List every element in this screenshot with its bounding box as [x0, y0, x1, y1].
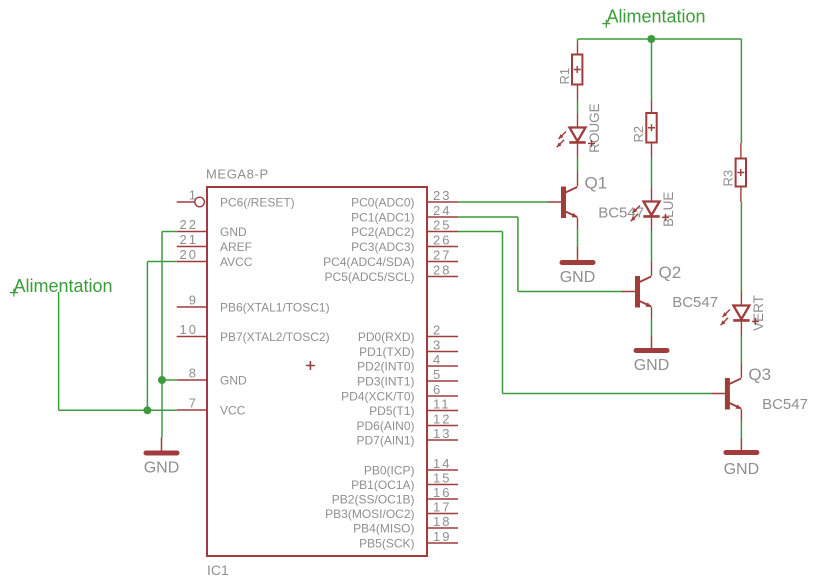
LED VERT — [733, 306, 749, 321]
IC1 pin 21 AREF (left) — [177, 232, 252, 254]
pin wire LED VERT cathode — [740, 320, 742, 335]
svg-text:BLUE: BLUE — [661, 192, 676, 227]
supply label Alimentation (top) — [607, 7, 706, 27]
IC1 pin 13 PD7(AIN1) (right) — [356, 426, 458, 447]
origin cross of top Alimentation label — [602, 20, 610, 28]
wire to VCC pin 7 — [59, 409, 177, 411]
svg-text:PC2(ADC2): PC2(ADC2) — [351, 225, 414, 239]
svg-text:6: 6 — [433, 382, 442, 397]
IC1 pin 10 PB7(XTAL2/TOSC2) (left) — [177, 322, 330, 344]
IC1 pin 1 PC6(/RESET) (left) — [177, 188, 295, 210]
IC1 pin 12 PD6(AIN0) (right) — [356, 412, 458, 433]
svg-text:Alimentation: Alimentation — [607, 7, 706, 27]
svg-text:R3: R3 — [720, 170, 735, 187]
wire R1 to LED ROUGE — [577, 100, 579, 114]
svg-text:PD4(XCK/T0): PD4(XCK/T0) — [341, 389, 414, 403]
IC1 pin 2 PD0(RXD) (right) — [358, 323, 458, 344]
ground symbol GND — [144, 438, 180, 477]
svg-text:GND: GND — [724, 461, 760, 478]
svg-text:12: 12 — [433, 412, 451, 427]
ground symbol GND — [634, 337, 670, 375]
origin cross of ROUGE — [588, 140, 595, 147]
IC1 pin 18 PB4(MISO) (right) — [353, 514, 458, 535]
wire rail to R2 — [651, 39, 653, 100]
svg-text:PB0(ICP): PB0(ICP) — [364, 463, 415, 477]
IC1 value label MEGA8-P — [206, 166, 269, 181]
pin wire LED BLUE anode — [651, 188, 653, 202]
svg-text:15: 15 — [433, 471, 451, 486]
wire from left Alimentation down — [58, 292, 60, 410]
IC1 pin 16 PB2(SS/OC1B) (right) — [332, 485, 458, 506]
wire GND pin 22 branch — [162, 232, 177, 381]
svg-text:4: 4 — [433, 352, 442, 367]
svg-text:AVCC: AVCC — [220, 255, 253, 269]
svg-text:PD5(T1): PD5(T1) — [369, 404, 414, 418]
IC1 pin 9 PB6(XTAL1/TOSC1) (left) — [177, 293, 330, 315]
resistor R2 — [646, 113, 656, 143]
wire LED VERT to Q3 collector — [740, 336, 742, 364]
label R1 — [557, 68, 572, 85]
IC1 pin 24 PC1(ADC1) (right) — [351, 203, 458, 224]
svg-text:9: 9 — [189, 293, 198, 308]
emission arrows of BLUE — [631, 206, 640, 222]
svg-text:PC1(ADC1): PC1(ADC1) — [351, 210, 414, 224]
IC1 pin 26 PC3(ADC3) (right) — [351, 233, 458, 254]
IC1 pin 5 PD3(INT1) (right) — [357, 367, 458, 388]
svg-text:GND: GND — [560, 269, 596, 286]
svg-text:14: 14 — [433, 456, 451, 471]
IC1 pin 14 PB0(ICP) (right) — [364, 456, 458, 477]
junction at AVCC branch on VCC wire — [143, 406, 151, 414]
origin cross of BLUE — [662, 214, 669, 221]
svg-text:7: 7 — [189, 396, 198, 411]
svg-text:PD0(RXD): PD0(RXD) — [358, 330, 415, 344]
label BLUE — [661, 192, 676, 227]
svg-text:16: 16 — [433, 485, 451, 500]
svg-text:GND: GND — [220, 225, 247, 239]
svg-text:GND: GND — [634, 357, 670, 374]
IC1 pin 15 PB1(OC1A) (right) — [351, 471, 458, 492]
resistor R3 — [736, 159, 746, 187]
svg-text:17: 17 — [433, 500, 451, 515]
wire GND pin 8 to ground symbol — [162, 380, 177, 438]
svg-text:22: 22 — [180, 217, 198, 232]
resistor R1 — [572, 55, 582, 85]
svg-text:VERT: VERT — [751, 295, 766, 331]
wire rail to R3 — [740, 39, 742, 143]
svg-text:PD7(AIN1): PD7(AIN1) — [356, 433, 414, 447]
transistor Q3 BC547 — [711, 364, 741, 421]
emission arrows of VERT — [721, 310, 730, 326]
svg-text:13: 13 — [433, 426, 451, 441]
label Q2 — [659, 263, 682, 282]
svg-text:8: 8 — [189, 366, 198, 381]
IC1 pin 11 PD5(T1) (right) — [369, 397, 458, 418]
pin wire LED BLUE cathode — [651, 216, 653, 231]
wire R2 to LED BLUE — [651, 158, 653, 188]
svg-text:PB4(MISO): PB4(MISO) — [353, 521, 414, 535]
svg-text:PD6(AIN0): PD6(AIN0) — [356, 419, 414, 433]
svg-text:ROUGE: ROUGE — [587, 103, 602, 153]
IC1 pin 22 GND (left) — [177, 217, 247, 239]
svg-text:PB6(XTAL1/TOSC1): PB6(XTAL1/TOSC1) — [220, 300, 330, 314]
IC1 pin 7 VCC (left) — [177, 396, 246, 418]
IC1 pin 19 PB5(SCK) (right) — [359, 529, 458, 550]
transistor Q1 BC547 — [548, 172, 578, 229]
svg-text:PB5(SCK): PB5(SCK) — [359, 536, 414, 550]
svg-text:BC547: BC547 — [598, 205, 644, 222]
pin wire LED VERT anode — [740, 292, 742, 306]
pin wire LED ROUGE cathode — [577, 142, 579, 157]
label R2 — [631, 126, 646, 143]
pin wire LED ROUGE anode — [577, 114, 579, 128]
IC1 pin 6 PD4(XCK/T0) (right) — [341, 382, 458, 403]
svg-text:3: 3 — [433, 338, 442, 353]
pin wire R1 top — [577, 43, 579, 55]
svg-text:11: 11 — [433, 397, 451, 412]
IC1 pin 27 PC4(ADC4/SDA) (right) — [323, 248, 458, 269]
svg-text:PD3(INT1): PD3(INT1) — [357, 374, 414, 388]
wire PC1 pin 24 to Q2 base — [458, 217, 622, 292]
svg-text:BC547: BC547 — [672, 294, 718, 311]
svg-text:21: 21 — [180, 232, 198, 247]
svg-text:18: 18 — [433, 514, 451, 529]
IC1 pin 23 PC0(ADC0) (right) — [351, 188, 458, 209]
label ROUGE — [587, 103, 602, 153]
value label BC547 of Q2 — [672, 294, 718, 311]
pin wire R2 top — [651, 100, 653, 113]
wire rail to R1 — [577, 39, 579, 43]
svg-text:PD1(TXD): PD1(TXD) — [359, 345, 414, 359]
svg-text:R2: R2 — [631, 126, 646, 143]
IC1 pin 3 PD1(TXD) (right) — [359, 338, 458, 359]
LED ROUGE — [569, 128, 585, 143]
wire Q2 emitter to ground — [651, 319, 653, 337]
wire AVCC pin 20 branch — [147, 262, 176, 411]
svg-text:Q3: Q3 — [748, 365, 771, 384]
svg-text:PD2(INT0): PD2(INT0) — [357, 359, 414, 373]
wire PC0 pin 23 to Q1 base — [458, 201, 548, 203]
pin wire R1 bottom — [577, 85, 579, 100]
svg-text:5: 5 — [433, 367, 442, 382]
svg-text:PB1(OC1A): PB1(OC1A) — [351, 478, 414, 492]
pin wire R3 top — [740, 143, 742, 158]
svg-text:26: 26 — [433, 233, 451, 248]
svg-text:Q1: Q1 — [585, 173, 608, 192]
junction at GND pin 8 — [158, 376, 166, 384]
emission arrows of ROUGE — [557, 132, 566, 148]
svg-text:24: 24 — [433, 203, 451, 218]
svg-text:27: 27 — [433, 248, 451, 263]
svg-text:GND: GND — [220, 373, 247, 387]
LED BLUE — [643, 202, 659, 217]
svg-text:1: 1 — [189, 188, 198, 203]
svg-text:PC3(ADC3): PC3(ADC3) — [351, 240, 414, 254]
value label BC547 of Q3 — [762, 396, 808, 413]
ground symbol GND — [560, 247, 596, 286]
svg-text:PC0(ADC0): PC0(ADC0) — [351, 195, 414, 209]
svg-text:20: 20 — [180, 247, 198, 262]
wire PC2 pin 25 to Q3 base — [458, 232, 712, 394]
IC1 origin cross — [306, 361, 315, 370]
svg-text:GND: GND — [144, 460, 180, 477]
svg-text:2: 2 — [433, 323, 442, 338]
label Q1 — [585, 173, 608, 192]
IC1 pin 8 GND (left) — [177, 366, 247, 388]
origin cross of left Alimentation label — [10, 289, 18, 297]
svg-text:PB7(XTAL2/TOSC2): PB7(XTAL2/TOSC2) — [220, 330, 330, 344]
svg-text:Q2: Q2 — [659, 263, 682, 282]
svg-text:MEGA8-P: MEGA8-P — [206, 166, 269, 181]
svg-text:AREF: AREF — [220, 240, 252, 254]
svg-text:PC6(/RESET): PC6(/RESET) — [220, 195, 295, 209]
IC1 name label — [207, 562, 229, 578]
svg-text:28: 28 — [433, 263, 451, 278]
svg-text:PC5(ADC5/SCL): PC5(ADC5/SCL) — [324, 270, 414, 284]
svg-text:IC1: IC1 — [207, 562, 229, 578]
svg-text:25: 25 — [433, 218, 451, 233]
label R3 — [720, 170, 735, 187]
supply label Alimentation (left) — [14, 276, 113, 296]
IC1 pin 4 PD2(INT0) (right) — [357, 352, 458, 373]
IC IC1 MEGA8-P body — [207, 187, 427, 556]
pin wire R3 bottom — [740, 187, 742, 202]
IC1 pin 28 PC5(ADC5/SCL) (right) — [324, 263, 458, 284]
wire LED ROUGE to Q1 collector — [577, 158, 579, 173]
ground symbol GND — [724, 439, 760, 479]
wire LED BLUE to Q2 collector — [651, 231, 653, 262]
IC1 pin 17 PB3(MOSI/OC2) (right) — [325, 500, 458, 521]
origin cross of VERT — [752, 318, 759, 325]
label VERT — [751, 295, 766, 331]
wire Q1 emitter to ground — [577, 229, 579, 247]
svg-text:19: 19 — [433, 529, 451, 544]
svg-text:PB2(SS/OC1B): PB2(SS/OC1B) — [332, 492, 415, 506]
wire supply rail horizontal — [578, 38, 742, 40]
svg-text:Alimentation: Alimentation — [14, 276, 113, 296]
wire R3 to LED VERT — [740, 202, 742, 292]
IC1 pin 20 AVCC (left) — [177, 247, 253, 269]
svg-text:PC4(ADC4/SDA): PC4(ADC4/SDA) — [323, 255, 414, 269]
svg-text:BC547: BC547 — [762, 396, 808, 413]
value label BC547 of Q1 — [598, 205, 644, 222]
junction on supply rail at R2 column — [647, 35, 655, 43]
svg-text:R1: R1 — [557, 68, 572, 85]
wire Q3 emitter to ground — [740, 421, 742, 439]
svg-text:10: 10 — [180, 322, 198, 337]
pin wire R2 bottom — [651, 143, 653, 158]
svg-text:23: 23 — [433, 188, 451, 203]
svg-text:PB3(MOSI/OC2): PB3(MOSI/OC2) — [325, 507, 414, 521]
svg-text:VCC: VCC — [220, 403, 246, 417]
IC1 pin 25 PC2(ADC2) (right) — [351, 218, 458, 239]
label Q3 — [748, 365, 771, 384]
transistor Q2 BC547 — [622, 262, 652, 319]
